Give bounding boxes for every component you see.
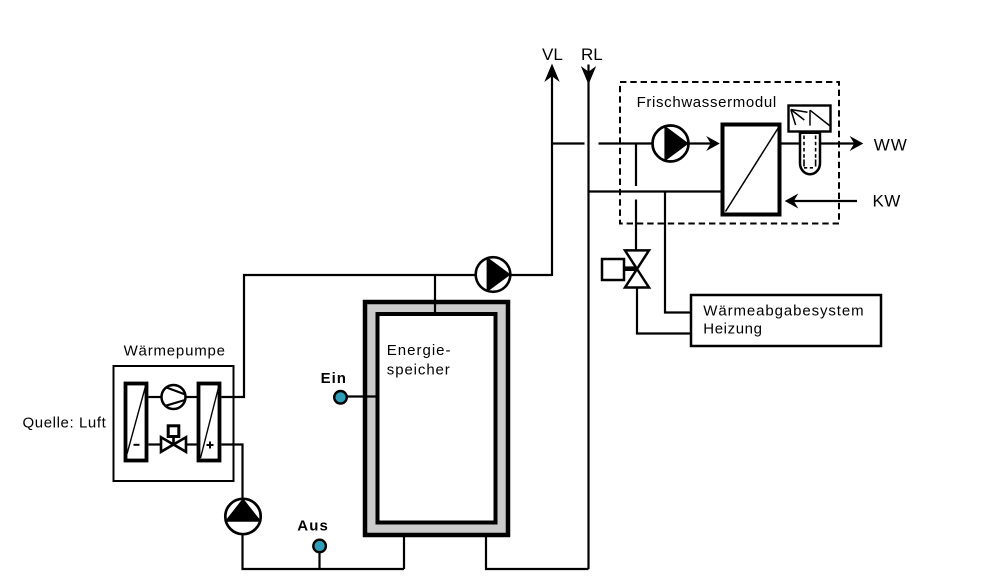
svg-text:Frischwassermodul: Frischwassermodul [637, 94, 777, 111]
dashed box Frischwassermodul [620, 82, 839, 224]
wire WW from heat exchanger [782, 142, 855, 144]
svg-text:Wärmepumpe: Wärmepumpe [124, 342, 226, 359]
wire heat pump bottom to pump P3 [222, 445, 405, 570]
WW arrowhead [850, 136, 864, 151]
svg-text:Heizung: Heizung [703, 321, 762, 338]
motor valve actuator square [602, 259, 624, 280]
expansion valve [161, 437, 174, 452]
wire RL vertical line [587, 65, 589, 570]
VL arrowhead [544, 64, 559, 83]
plus label [207, 444, 214, 446]
sensor Ein [347, 395, 379, 397]
wire evaporator to expansion valve [149, 443, 162, 445]
wire tank bottom left exit [403, 535, 405, 569]
heat pump evaporator (left) [126, 384, 147, 461]
wire heat pump top to storage pump to VL [222, 275, 553, 397]
storage pump P1 [476, 257, 511, 292]
tap symbol body cylinder [800, 133, 820, 174]
motor valve actuator link [625, 266, 636, 271]
svg-text:WW: WW [874, 135, 908, 154]
svg-text:RL: RL [581, 45, 603, 64]
compressor [162, 385, 186, 409]
wire heat exchanger to RL (lower horizontal) [589, 190, 722, 192]
pump P3 below heat pump [225, 499, 260, 534]
wire VL to Frischwassermodul segment 1 [552, 142, 585, 144]
wire VL to Frischwassermodul segment 2 [599, 142, 654, 144]
energy storage tank outer shell [365, 302, 508, 535]
svg-text:Ein: Ein [321, 370, 347, 387]
wire KW line [794, 200, 858, 202]
box Waermeabgabesystem Heizung [691, 295, 881, 346]
RL arrowhead [581, 66, 596, 85]
minus label [134, 444, 140, 446]
heat pump outer box [114, 366, 234, 481]
motor valve V1 [625, 250, 649, 269]
svg-text:Wärmeabgabesystem: Wärmeabgabesystem [703, 303, 864, 320]
wire motor valve to heating system box [637, 287, 691, 334]
wire VL vertical line [551, 74, 553, 276]
heat exchanger U1 [723, 125, 780, 215]
wire expansion valve to condenser [186, 443, 199, 445]
tap symbol (Zapfstelle) head box [789, 106, 831, 132]
arrowhead into heat exchanger [706, 136, 720, 151]
pump P2 fresh water module [653, 126, 689, 162]
KW arrowhead [785, 194, 799, 209]
svg-text:Energie-: Energie- [387, 342, 452, 359]
wire compressor to condenser [185, 396, 199, 398]
sensor Aus [318, 552, 320, 569]
wire pump P2 to heat exchanger [687, 142, 711, 144]
heat pump condenser (right) [199, 384, 220, 461]
wire branch to motor valve (lower part, after crossing gap) [635, 200, 637, 252]
svg-text:Quelle: Luft: Quelle: Luft [23, 415, 107, 432]
wire evaporator to compressor [149, 396, 163, 398]
wire branch to heating system [665, 192, 691, 313]
wire tank top connection [434, 275, 436, 313]
svg-text:Aus: Aus [297, 518, 329, 535]
svg-text:VL: VL [542, 45, 563, 64]
wire branch to motor valve (upper part) [635, 144, 637, 187]
energy storage tank inner vessel [378, 314, 496, 523]
svg-text:KW: KW [873, 192, 901, 211]
svg-text:speicher: speicher [387, 361, 451, 378]
wire tank bottom right exit [486, 535, 589, 569]
